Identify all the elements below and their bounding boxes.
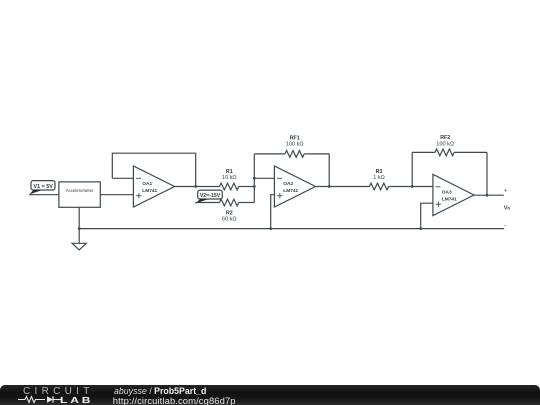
op-amp OA3 LM741 bbox=[433, 174, 474, 215]
op-amp OA2 LM741 bbox=[274, 166, 315, 207]
svg-text:V1 = 5V: V1 = 5V bbox=[34, 184, 54, 190]
wire OA3 non-inverting input to ground rail bbox=[421, 203, 433, 228]
svg-text:OA3: OA3 bbox=[442, 190, 452, 196]
op-amp OA1 LM741 bbox=[133, 166, 174, 207]
resistor R3 1 kOhm bbox=[369, 169, 388, 190]
ground rail wire bbox=[79, 228, 504, 230]
node: OA2 ground junction bbox=[269, 227, 272, 230]
node: OA2 output feedback junction bbox=[328, 185, 331, 188]
wire R3 to OA3 inverting input bbox=[389, 186, 433, 188]
wire OA2 non-inverting input to ground rail bbox=[271, 195, 275, 229]
resistor RF2 100 kOhm feedback bbox=[412, 135, 487, 195]
svg-text:OA2: OA2 bbox=[283, 181, 293, 187]
footer bar bbox=[0, 385, 540, 405]
CircuitLab logo text LAB bbox=[60, 395, 93, 405]
node: accelerometer ground junction bbox=[78, 227, 81, 230]
node: OA3 ground junction bbox=[419, 227, 422, 230]
wire OA1 output bbox=[175, 186, 220, 188]
resistor R1 10 kOhm bbox=[220, 169, 239, 190]
resistor R2 60 kOhm bbox=[220, 199, 239, 222]
svg-text:LM741: LM741 bbox=[142, 188, 157, 194]
node: OA1 output feedback junction bbox=[194, 185, 197, 188]
svg-text:100 kΩ: 100 kΩ bbox=[436, 142, 454, 148]
node: R1 junction bbox=[253, 185, 256, 188]
node: OA3 inverting input junction bbox=[411, 185, 414, 188]
wire accelerometer output to OA1 + input bbox=[100, 194, 133, 196]
resistor RF1 100 kOhm feedback bbox=[254, 135, 329, 186]
footer author / title bbox=[114, 386, 206, 396]
svg-text:OA1: OA1 bbox=[142, 181, 152, 187]
wire OA1 feedback loop bbox=[112, 153, 195, 186]
wire V1 flag to accelerometer input bbox=[29, 194, 59, 196]
CircuitLab logo text CIRCUIT bbox=[23, 386, 94, 397]
svg-text:60 kΩ: 60 kΩ bbox=[222, 216, 237, 222]
wire V2 flag to R2 bbox=[195, 202, 219, 204]
svg-text:-: - bbox=[504, 224, 506, 229]
svg-text:1 kΩ: 1 kΩ bbox=[373, 175, 384, 181]
svg-text:10 kΩ: 10 kΩ bbox=[222, 175, 237, 181]
footer url bbox=[113, 395, 236, 405]
wire OA2 output bbox=[316, 186, 370, 188]
svg-text:LM741: LM741 bbox=[283, 188, 298, 194]
svg-text:+: + bbox=[504, 189, 507, 194]
wire OA2 input bus bbox=[253, 154, 255, 203]
accelerometer block bbox=[59, 182, 100, 207]
wire OA1 inverting input bbox=[112, 177, 133, 179]
wire R2 right lead bbox=[239, 202, 255, 204]
svg-text:Accelerometer: Accelerometer bbox=[66, 188, 94, 193]
node: OA2 inverting input junction bbox=[253, 177, 256, 180]
voltage flag V1 = 5V bbox=[29, 181, 55, 195]
node: OA3 output feedback junction bbox=[486, 194, 489, 197]
wire OA2 inverting input bbox=[254, 177, 274, 179]
svg-text:100 kΩ: 100 kΩ bbox=[286, 142, 304, 148]
svg-text:LM741: LM741 bbox=[442, 197, 457, 203]
svg-text:Vo: Vo bbox=[504, 206, 511, 212]
wire OA3 output to terminal bbox=[474, 194, 504, 196]
svg-text:RF1: RF1 bbox=[290, 135, 300, 141]
ground bbox=[72, 229, 86, 250]
svg-text:RF2: RF2 bbox=[440, 135, 450, 141]
CircuitLab logo resistor + diode glyph bbox=[18, 395, 62, 404]
wire accelerometer bottom pin to ground rail bbox=[78, 207, 80, 228]
voltage flag V2=-15V bbox=[195, 190, 222, 204]
wire R1 right lead bbox=[239, 186, 255, 188]
svg-text:V2=-15V: V2=-15V bbox=[200, 193, 221, 199]
